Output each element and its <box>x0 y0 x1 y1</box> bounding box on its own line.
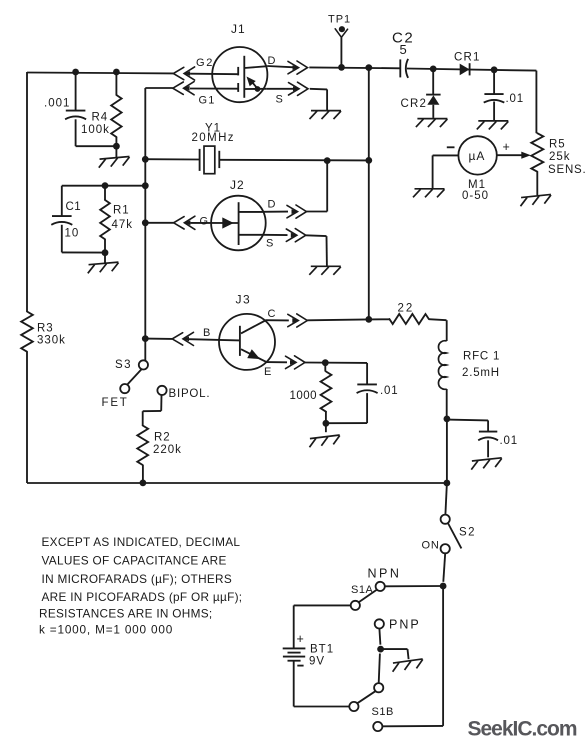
svg-text:J3: J3 <box>236 293 252 307</box>
svg-text:VALUES OF CAPACITANCE ARE: VALUES OF CAPACITANCE ARE <box>42 554 227 568</box>
svg-text:NPN: NPN <box>368 567 402 581</box>
svg-text:20MHz: 20MHz <box>192 132 235 144</box>
svg-text:G1: G1 <box>199 95 216 107</box>
svg-text:RESISTANCES ARE IN OHMS;: RESISTANCES ARE IN OHMS; <box>39 607 212 621</box>
svg-text:SENS.: SENS. <box>548 164 587 176</box>
svg-text:D: D <box>268 55 276 67</box>
svg-text:47k: 47k <box>112 219 134 231</box>
svg-text:S3: S3 <box>115 359 132 371</box>
svg-text:S1B: S1B <box>372 706 394 718</box>
svg-text:S: S <box>276 94 283 106</box>
svg-text:.01: .01 <box>500 435 518 447</box>
svg-text:TP1: TP1 <box>328 14 351 26</box>
svg-text:2.5mH: 2.5mH <box>462 367 500 379</box>
svg-text:5: 5 <box>400 42 407 57</box>
svg-text:k =1000, M=1 000 000: k =1000, M=1 000 000 <box>39 623 173 637</box>
svg-text:C1: C1 <box>66 201 82 213</box>
svg-text:S1A: S1A <box>351 584 373 596</box>
svg-text:FET: FET <box>102 397 129 409</box>
svg-text:R3: R3 <box>37 323 54 335</box>
svg-text:CR1: CR1 <box>454 52 481 64</box>
svg-text:9V: 9V <box>309 656 325 668</box>
svg-text:ARE IN PICOFARADS (pF OR µµF);: ARE IN PICOFARADS (pF OR µµF); <box>42 590 243 604</box>
svg-text:.001: .001 <box>44 98 70 110</box>
svg-text:R5: R5 <box>549 139 566 151</box>
svg-text:S2: S2 <box>459 527 476 539</box>
svg-text:B: B <box>203 327 210 339</box>
svg-text:+: + <box>297 632 304 646</box>
svg-text:220k: 220k <box>153 444 182 456</box>
svg-text:BT1: BT1 <box>310 644 334 656</box>
svg-text:E: E <box>264 366 271 378</box>
svg-text:PNP: PNP <box>389 618 421 632</box>
svg-text:C: C <box>268 308 276 320</box>
svg-text:100k: 100k <box>81 124 110 136</box>
svg-text:330k: 330k <box>37 335 66 347</box>
svg-text:.01: .01 <box>506 93 524 105</box>
svg-text:G2: G2 <box>196 57 214 69</box>
svg-text:S: S <box>266 238 273 250</box>
svg-text:RFC 1: RFC 1 <box>463 351 500 363</box>
svg-text:J2: J2 <box>230 178 245 192</box>
svg-text:0-50: 0-50 <box>462 190 489 202</box>
svg-text:CR2: CR2 <box>401 98 428 110</box>
svg-text:ON: ON <box>422 540 440 552</box>
svg-text:25k: 25k <box>549 151 571 163</box>
svg-text:SeekIC.com: SeekIC.com <box>468 718 577 741</box>
svg-text:10: 10 <box>65 228 80 240</box>
svg-text:+: + <box>503 140 510 154</box>
svg-text:G: G <box>200 216 209 228</box>
svg-text:22: 22 <box>398 303 415 315</box>
svg-text:EXCEPT AS INDICATED, DECIMAL: EXCEPT AS INDICATED, DECIMAL <box>42 535 241 549</box>
svg-text:BIPOL.: BIPOL. <box>169 388 211 400</box>
svg-text:µA: µA <box>469 149 486 163</box>
svg-text:D: D <box>268 199 276 211</box>
svg-text:1000: 1000 <box>290 390 318 402</box>
svg-text:R2: R2 <box>154 432 171 444</box>
svg-text:R4: R4 <box>92 112 109 124</box>
svg-text:J1: J1 <box>231 22 246 36</box>
svg-text:IN MICROFARADS (µF); OTHERS: IN MICROFARADS (µF); OTHERS <box>42 572 233 586</box>
svg-text:R1: R1 <box>113 205 130 217</box>
svg-text:.01: .01 <box>380 385 398 397</box>
